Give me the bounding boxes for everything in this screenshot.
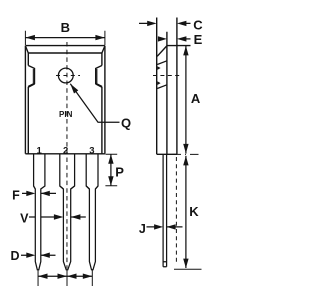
svg-text:Q: Q (121, 115, 131, 130)
svg-text:3: 3 (89, 145, 94, 156)
svg-text:1: 1 (36, 145, 42, 156)
svg-text:2: 2 (63, 145, 68, 156)
svg-text:A: A (191, 91, 201, 106)
svg-text:F: F (12, 188, 20, 202)
svg-text:P: P (115, 164, 124, 179)
svg-text:PIN: PIN (59, 110, 73, 119)
svg-text:E: E (194, 32, 203, 47)
svg-text:K: K (189, 204, 199, 219)
svg-text:J: J (139, 222, 146, 236)
svg-text:D: D (10, 249, 19, 263)
svg-text:V: V (20, 211, 29, 225)
svg-text:B: B (61, 20, 70, 35)
svg-text:C: C (193, 17, 203, 32)
